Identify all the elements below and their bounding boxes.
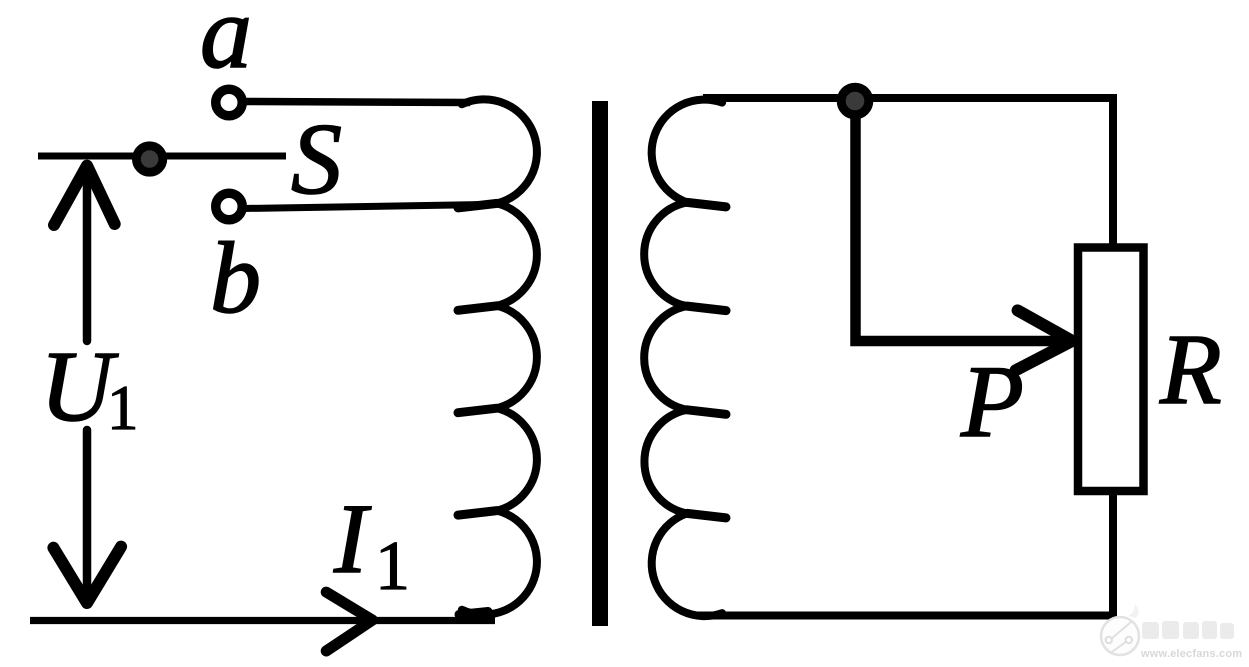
terminal a (open contact): [216, 89, 243, 116]
wiper arrowhead P: [1016, 310, 1073, 370]
resistor R body: [1078, 248, 1144, 492]
wire from terminal b to primary winding tap junction: [243, 205, 485, 209]
transformer secondary winding (5 turns): [644, 100, 726, 617]
svg-text:I: I: [333, 483, 372, 594]
primary turn 4: [497, 408, 537, 510]
secondary turn 5: [652, 513, 722, 616]
voltage arrow U1 shaft upper segment: [83, 168, 92, 341]
secondary turn 4: [644, 410, 687, 514]
wiper wire from node down and right to R: [856, 101, 1064, 341]
watermark brand glyph blobs: [1142, 621, 1234, 639]
wire resistor R bottom to secondary winding bottom: [696, 491, 1113, 616]
terminal b (open contact): [216, 193, 243, 220]
primary junction tick 2: [458, 306, 497, 311]
secondary junction tick 3: [687, 410, 726, 415]
svg-text:S: S: [291, 103, 342, 216]
primary turn 1: [462, 99, 537, 203]
svg-text:1: 1: [107, 373, 139, 443]
primary turn 5: [462, 511, 537, 615]
transformer core bar: [592, 101, 608, 626]
primary bottom end tick: [459, 612, 488, 615]
wire from terminal a to primary winding top: [243, 102, 470, 103]
current arrow I1 arrowhead on bottom wire: [326, 592, 372, 651]
primary junction tick 1 (terminal b tap): [458, 203, 497, 208]
primary turn 2: [497, 203, 537, 305]
watermark logo: [1101, 604, 1139, 655]
svg-text:R: R: [1159, 313, 1222, 425]
voltage arrow U1 up arrowhead: [54, 166, 115, 225]
svg-text:www.elecfans.com: www.elecfans.com: [1140, 648, 1242, 660]
secondary junction tick 1: [687, 202, 726, 207]
secondary turn 2: [644, 202, 687, 306]
primary junction tick 4: [458, 511, 497, 515]
secondary turn 1: [652, 100, 722, 203]
svg-text:b: b: [210, 222, 261, 335]
svg-text:a: a: [200, 0, 252, 90]
junction node dot on secondary top wire: [841, 87, 869, 115]
wire bottom-left (primary return, carries I1): [30, 617, 495, 624]
svg-text:1: 1: [375, 528, 410, 605]
secondary junction tick 4: [687, 513, 726, 518]
secondary turn 3: [644, 306, 687, 410]
primary turn 3: [497, 306, 537, 408]
voltage arrow U1 down arrowhead: [53, 547, 121, 603]
transformer primary winding (5 turns): [458, 99, 537, 614]
svg-text:P: P: [960, 345, 1024, 459]
voltage arrow U1 shaft lower segment: [83, 430, 92, 601]
switch S lever wire (common pole): [38, 153, 286, 160]
switch S pivot contact dot: [136, 146, 162, 172]
wire secondary top to resistor R top: [703, 98, 1113, 248]
secondary junction tick 2: [687, 306, 726, 311]
primary junction tick 3: [458, 408, 497, 413]
